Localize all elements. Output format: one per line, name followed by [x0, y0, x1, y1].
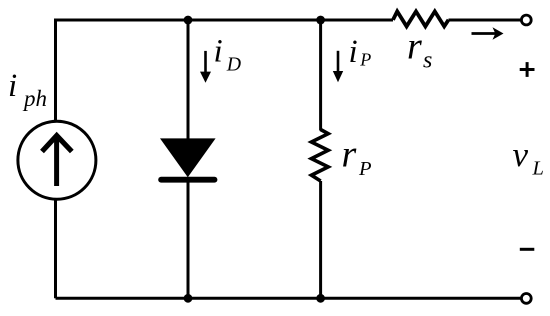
svg-text:r: r	[342, 134, 357, 176]
label plus	[520, 68, 535, 71]
resistor rs zigzag	[393, 11, 449, 26]
wire rP branch upper	[319, 20, 322, 131]
svg-text:D: D	[226, 54, 241, 76]
diode D1 cathode bar	[158, 177, 217, 183]
arrow i_D	[204, 51, 207, 75]
wire left branch upper	[54, 19, 57, 122]
svg-text:v: v	[513, 135, 529, 174]
svg-text:i: i	[214, 34, 223, 70]
wire bottom rail	[56, 297, 521, 300]
svg-text:i: i	[349, 34, 358, 70]
current source Iph circle	[18, 121, 96, 199]
label minus	[520, 248, 535, 251]
wire top rail left segment	[56, 19, 189, 22]
wire rP branch lower	[319, 181, 322, 298]
svg-text:ph: ph	[22, 86, 47, 111]
current source Iph arrow head	[42, 136, 72, 152]
svg-text:s: s	[423, 48, 432, 74]
wire top rail to resistor rs	[321, 19, 393, 22]
current source Iph arrow shaft	[54, 138, 59, 187]
terminal top right	[521, 15, 531, 25]
svg-text:P: P	[359, 50, 371, 70]
output current arrow	[472, 32, 497, 35]
node D bottom rP junction	[316, 294, 325, 303]
wire diode branch upper	[187, 20, 190, 141]
svg-text:i: i	[8, 68, 17, 104]
node A top diode junction	[184, 16, 193, 25]
node B top rP junction	[316, 16, 325, 25]
svg-text:P: P	[358, 158, 372, 180]
arrow i_P	[337, 51, 340, 75]
wire left branch lower	[54, 199, 57, 298]
wire top rail middle segment	[188, 19, 321, 22]
node C bottom diode junction	[184, 294, 193, 303]
resistor rP zigzag	[311, 130, 328, 182]
wire diode branch lower	[187, 180, 190, 298]
terminal bottom right	[521, 294, 531, 304]
wire resistor rs to terminal	[449, 19, 521, 22]
diode D1 triangle	[160, 138, 216, 177]
svg-text:L: L	[532, 158, 544, 180]
svg-text:r: r	[407, 26, 422, 68]
